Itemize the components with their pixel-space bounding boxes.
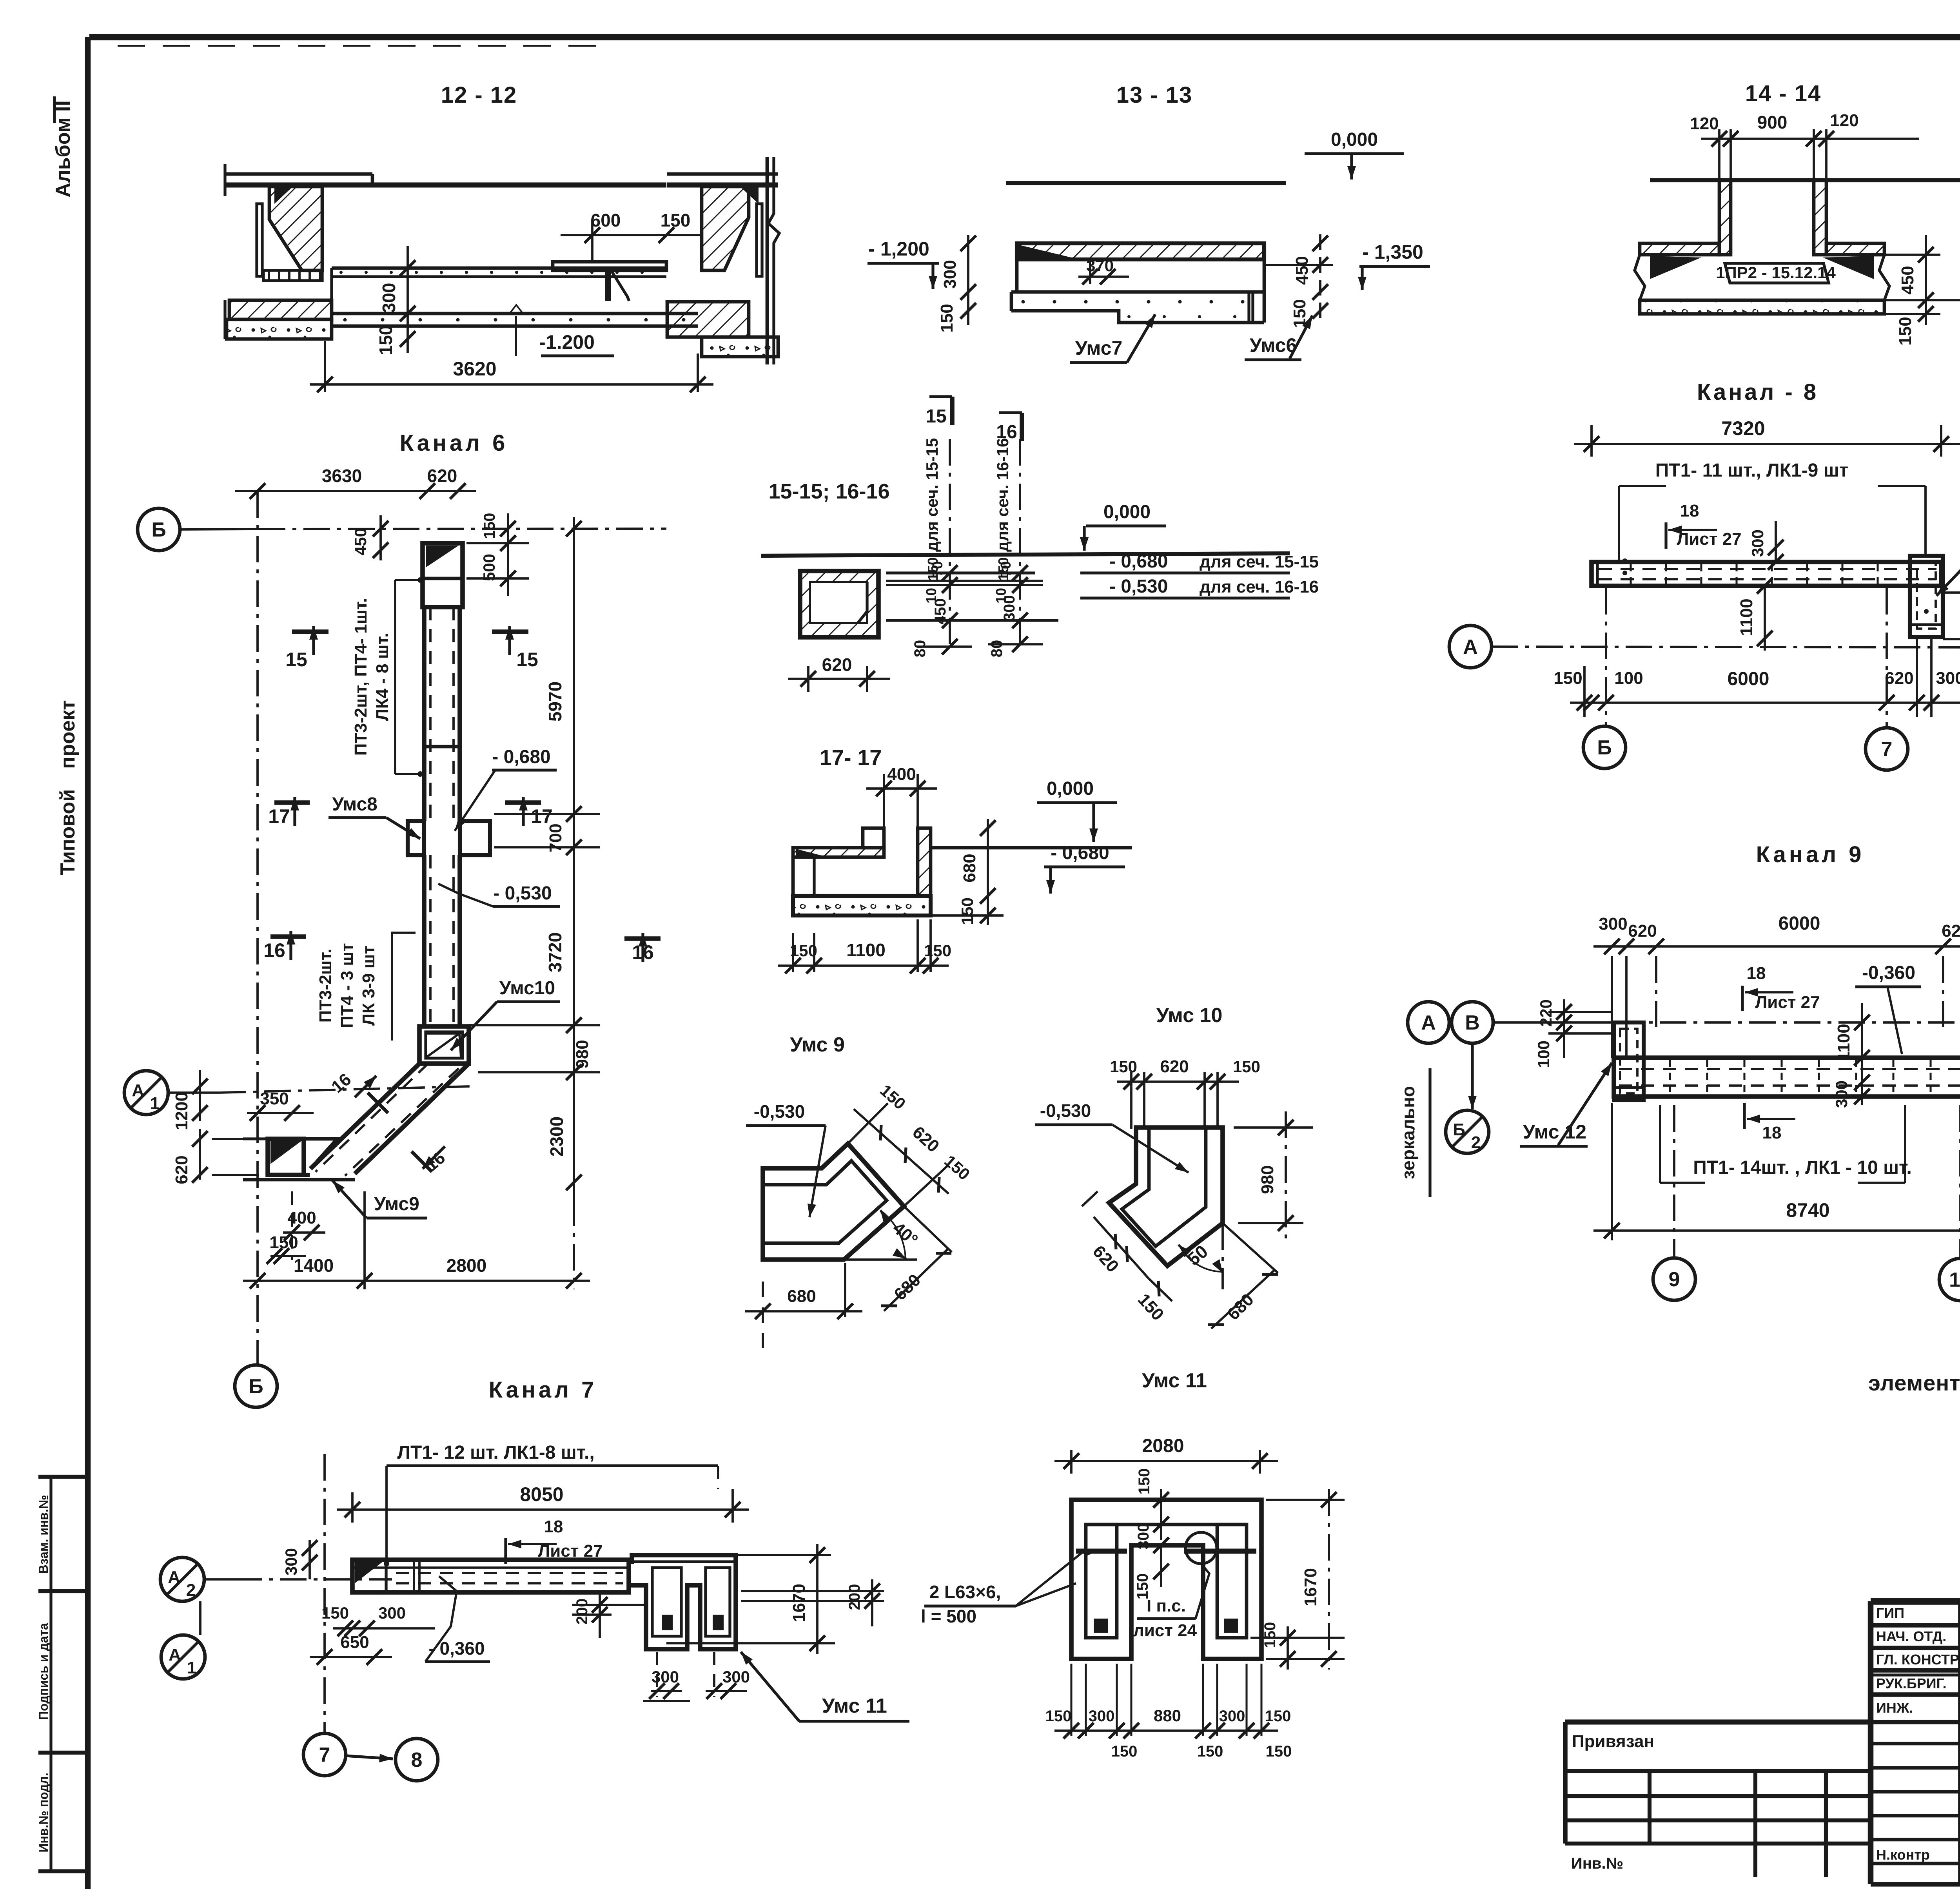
svg-text:Канал 6: Канал 6 — [400, 430, 508, 456]
svg-text:300: 300 — [652, 1668, 679, 1686]
svg-text:Б: Б — [1453, 1120, 1465, 1139]
svg-text:А: А — [132, 1081, 144, 1100]
svg-text:17- 17: 17- 17 — [820, 745, 882, 770]
svg-text:2300: 2300 — [546, 1117, 567, 1157]
svg-text:7: 7 — [319, 1744, 330, 1766]
svg-text:15-15; 16-16: 15-15; 16-16 — [768, 480, 889, 503]
svg-text:150: 150 — [376, 325, 396, 355]
svg-text:18: 18 — [1680, 501, 1699, 520]
svg-text:8: 8 — [411, 1749, 423, 1771]
channel 6 walls below T — [422, 855, 426, 1026]
svg-text:-0,530: -0,530 — [1040, 1100, 1091, 1121]
dimension 600 / 150 — [561, 234, 702, 236]
Ums11 dim 1670 right — [1328, 1489, 1330, 1670]
svg-text:ПТ1- 11 шт., ЛК1-9 шт: ПТ1- 11 шт., ЛК1-9 шт — [1655, 460, 1848, 481]
svg-text:70: 70 — [929, 561, 946, 577]
svg-text:2800: 2800 — [446, 1255, 486, 1276]
svg-text:300: 300 — [378, 1604, 406, 1622]
svg-text:900: 900 — [1757, 112, 1788, 132]
dim 300/150 left rotated — [967, 235, 969, 325]
slab top hatched band — [1017, 243, 1264, 259]
svg-text:ГИП: ГИП — [1876, 1605, 1904, 1621]
dimension 1400 / 2800 — [243, 1280, 590, 1282]
svg-text:9: 9 — [1669, 1268, 1680, 1291]
svg-text:17: 17 — [268, 805, 290, 827]
svg-text:15: 15 — [285, 649, 307, 671]
channel box — [800, 571, 878, 637]
svg-text:150: 150 — [1553, 669, 1582, 688]
svg-text:Умс10: Умс10 — [499, 978, 555, 999]
svg-text:150: 150 — [1111, 1743, 1138, 1760]
grid circles B and 7 — [1605, 588, 1607, 726]
svg-text:Привязан: Привязан — [1572, 1732, 1654, 1751]
section mark 16 right — [624, 936, 661, 941]
svg-text:I п.с.: I п.с. — [1147, 1596, 1186, 1615]
dimension 8050 — [351, 1492, 354, 1523]
ground line — [1006, 181, 1286, 185]
section 12-12 right lower hatched block — [667, 302, 749, 337]
svg-text:450: 450 — [1898, 266, 1917, 294]
svg-text:1ПР2 - 15.12.14: 1ПР2 - 15.12.14 — [1716, 263, 1836, 282]
dimension 1200 rotated — [199, 1070, 201, 1121]
svg-text:150: 150 — [1233, 1057, 1260, 1076]
svg-text:ПТ1- 14шт. , ЛК1 - 10 шт.: ПТ1- 14шт. , ЛК1 - 10 шт. — [1693, 1157, 1912, 1178]
svg-text:300: 300 — [1135, 1523, 1152, 1550]
Ums10 top dims 150 620 150 — [1117, 1080, 1239, 1083]
svg-text:150: 150 — [1110, 1057, 1137, 1076]
svg-text:1100: 1100 — [1834, 1024, 1853, 1061]
svg-text:Н.контр: Н.контр — [1876, 1847, 1930, 1863]
svg-text:- 1,350: - 1,350 — [1362, 241, 1423, 263]
svg-text:2: 2 — [186, 1581, 196, 1600]
Ums10 elbow inner contour — [1122, 1128, 1206, 1246]
svg-text:А: А — [1421, 1012, 1436, 1034]
svg-text:Умс 10: Умс 10 — [1156, 1004, 1223, 1027]
walls hatched — [1719, 180, 1731, 255]
section mark 15 right — [492, 629, 528, 634]
channel 9 bar — [1614, 1058, 1960, 1097]
dim 7320 — [1590, 425, 1593, 457]
svg-text:1200: 1200 — [172, 1092, 191, 1130]
svg-text:80: 80 — [988, 640, 1005, 658]
svg-text:для сеч. 15-15: для сеч. 15-15 — [1200, 552, 1319, 571]
svg-text:А: А — [169, 1645, 181, 1664]
Ums11 dim 150 right — [1287, 1626, 1289, 1670]
svg-text:для сеч. 16-16: для сеч. 16-16 — [1200, 577, 1319, 596]
svg-text:3620: 3620 — [453, 358, 496, 380]
Ums9 diagonal dims 150 620 150 — [854, 1109, 949, 1194]
channel 6 bend junction box Ums10 — [419, 1026, 469, 1064]
ground line right — [931, 846, 1132, 850]
svg-text:15: 15 — [926, 406, 946, 427]
channel 6 T junction Ums8 — [408, 821, 424, 855]
svg-text:10: 10 — [1949, 1269, 1960, 1291]
grid circles 9 and 10 — [1673, 1105, 1675, 1258]
svg-text:1400: 1400 — [294, 1255, 334, 1276]
svg-text:150: 150 — [924, 941, 951, 960]
dim 680 / 150 rotated — [987, 819, 989, 925]
svg-text:для сеч. 15-15: для сеч. 15-15 — [923, 438, 941, 552]
dim 1100 rotated — [1764, 586, 1766, 651]
svg-text:650: 650 — [340, 1633, 369, 1652]
svg-text:- 0,360: - 0,360 — [428, 1638, 485, 1659]
svg-text:620: 620 — [1885, 669, 1913, 688]
svg-text:Б: Б — [249, 1375, 263, 1398]
svg-text:300: 300 — [1748, 529, 1767, 557]
svg-text:лист 24: лист 24 — [1133, 1621, 1197, 1640]
left stamp blocks — [38, 1475, 88, 1479]
dims 220 100 left rotated — [1563, 999, 1565, 1058]
svg-text:150: 150 — [1197, 1743, 1223, 1760]
svg-text:600: 600 — [591, 210, 621, 230]
title block outer frame — [1871, 1598, 1960, 1604]
svg-text:300: 300 — [940, 260, 960, 288]
channel 7 right structure with feet — [629, 1555, 736, 1649]
svg-text:-1.200: -1.200 — [539, 331, 595, 353]
dim 450 / 150 right — [1925, 235, 1927, 325]
section 12-12 left foundation — [227, 319, 332, 339]
svg-text:100: 100 — [1614, 669, 1643, 688]
svg-text:1: 1 — [150, 1094, 160, 1113]
svg-text:680: 680 — [960, 854, 979, 882]
svg-text:ЛТ1- 12 шт. ЛК1-8 шт.,: ЛТ1- 12 шт. ЛК1-8 шт., — [397, 1442, 594, 1463]
sheet frame top border — [89, 34, 1960, 40]
svg-text:80: 80 — [911, 640, 929, 658]
svg-text:150: 150 — [937, 304, 956, 332]
Ums9 elbow outer contour — [763, 1144, 904, 1260]
svg-text:Умс 12: Умс 12 — [1523, 1121, 1586, 1143]
slab edge lines — [886, 571, 1035, 574]
section mark 17 right — [505, 800, 541, 805]
svg-text:-0,360: -0,360 — [1862, 963, 1915, 983]
grid axis B vertical dash-dot — [256, 491, 259, 1364]
section 12-12 cover plate 600 — [553, 262, 666, 270]
channel 9 left foot — [1614, 1022, 1644, 1100]
dimension 150 — [270, 1255, 306, 1257]
svg-text:Умс 11: Умс 11 — [822, 1695, 887, 1717]
svg-text:12 - 12: 12 - 12 — [441, 82, 517, 108]
svg-text:300: 300 — [282, 1548, 300, 1575]
bottom slab with step — [1011, 290, 1264, 294]
svg-text:-0,530: -0,530 — [754, 1101, 805, 1122]
section 12-12 right wall block — [667, 172, 778, 176]
axis circles A B and B/2 — [1408, 1002, 1449, 1043]
channel 6 diagonal branch — [310, 1064, 419, 1169]
svg-text:ПТ3-2шт, ПТ4- 1шт.: ПТ3-2шт, ПТ4- 1шт. — [351, 598, 370, 756]
bottom dimensions 300 300 of feet — [651, 1690, 682, 1692]
title block staff column lines — [1958, 1601, 1960, 1884]
svg-text:элементов каналов - лист: элементов каналов - лист 27 — [1868, 1370, 1960, 1395]
svg-text:300: 300 — [1001, 595, 1018, 622]
Ums11 outer shape — [1071, 1500, 1261, 1659]
Ums10 elbow outer contour — [1109, 1128, 1223, 1266]
dimensions 150 300 650 — [333, 1627, 435, 1630]
right dimension chain 5970/700/3720/980/2300 — [573, 517, 575, 1199]
grid circle B bottom — [235, 1365, 277, 1407]
svg-text:14 - 14: 14 - 14 — [1745, 81, 1822, 106]
Ums10 diag dim 680 — [1223, 1223, 1278, 1273]
Ums9 diagonal 680 — [884, 1248, 949, 1311]
beam mark 1PR2-15.12.14 — [1725, 263, 1829, 283]
dimension 200 rotated near feet — [599, 1591, 601, 1638]
svg-text:300: 300 — [1089, 1708, 1115, 1725]
privyazan sub-table — [1565, 1719, 1871, 1724]
svg-text:150: 150 — [790, 941, 817, 960]
svg-text:Лист 27: Лист 27 — [1677, 529, 1741, 549]
Ums9 angle 40deg — [844, 1258, 917, 1261]
dimension 450 — [379, 515, 382, 560]
Ums11 inner slots — [1086, 1525, 1117, 1638]
dim 450/150 right rotated — [1319, 234, 1321, 325]
channel 8 bar — [1592, 562, 1941, 586]
svg-text:ПТ4 - 3 шт: ПТ4 - 3 шт — [338, 943, 357, 1028]
Ums9 bottom 680 — [745, 1310, 862, 1312]
Ums11 rotated dims 150 300 150 — [1160, 1489, 1162, 1540]
diagonal section marks 16 on branch — [355, 1076, 376, 1097]
svg-text:2 L63×6,: 2 L63×6, — [929, 1582, 1001, 1602]
svg-text:1670: 1670 — [789, 1584, 809, 1622]
svg-text:Умс 11: Умс 11 — [1142, 1369, 1207, 1392]
dimension 200 / 1670 right — [871, 1579, 873, 1626]
svg-text:l = 500: l = 500 — [921, 1606, 976, 1626]
svg-text:150: 150 — [1136, 1468, 1153, 1495]
svg-text:13 - 13: 13 - 13 — [1116, 82, 1193, 108]
svg-text:220: 220 — [1537, 999, 1555, 1027]
svg-text:16: 16 — [632, 941, 654, 963]
grid circle B top — [138, 508, 180, 551]
svg-text:Умс7: Умс7 — [1075, 337, 1123, 359]
svg-text:500: 500 — [480, 554, 498, 581]
svg-text:150: 150 — [1134, 1574, 1151, 1600]
dimension 150 / 500 right of channel top — [507, 513, 509, 596]
svg-text:- 0,530: - 0,530 — [493, 883, 552, 904]
17-17 channel body — [793, 896, 931, 915]
svg-text:5970: 5970 — [545, 682, 565, 721]
svg-text:350: 350 — [260, 1089, 289, 1108]
svg-text:150: 150 — [1266, 1743, 1292, 1760]
svg-text:А: А — [168, 1568, 180, 1587]
dimension 3620 — [324, 341, 326, 392]
Ums11 detail circle p.s. — [1185, 1532, 1217, 1564]
bottom dims 150 1100 150 — [792, 933, 794, 972]
svg-text:0,000: 0,000 — [1331, 129, 1378, 150]
dims 120 900 120 — [1701, 138, 1919, 140]
svg-text:3720: 3720 — [545, 932, 565, 972]
dims 1100 300 rotated — [1861, 1003, 1863, 1105]
svg-text:680: 680 — [787, 1287, 816, 1306]
svg-text:16: 16 — [263, 939, 285, 961]
svg-text:300: 300 — [379, 283, 399, 313]
svg-text:620: 620 — [822, 654, 852, 675]
title block staff row lines — [1871, 1623, 1960, 1628]
svg-text:150: 150 — [661, 210, 691, 230]
svg-text:Инв.№ подл.: Инв.№ подл. — [36, 1773, 51, 1852]
svg-text:980: 980 — [573, 1040, 592, 1068]
svg-text:- 0,680: - 0,680 — [492, 747, 550, 767]
svg-text:ЛК 3-9 шт: ЛК 3-9 шт — [359, 946, 378, 1026]
Ums11 bottom dims — [1070, 1664, 1072, 1736]
Ums10 angle 50 — [1221, 1223, 1224, 1289]
svg-text:15: 15 — [516, 649, 538, 671]
svg-text:В: В — [1465, 1012, 1480, 1034]
dimension 300 left rotated — [309, 1540, 311, 1579]
svg-text:для сеч. 16-16: для сеч. 16-16 — [993, 438, 1012, 552]
svg-text:Типовой проект: Типовой проект — [56, 700, 79, 875]
svg-text:2: 2 — [1471, 1133, 1481, 1152]
channel 6 end box Ums9 — [268, 1139, 304, 1175]
dim 300 rotated — [1775, 521, 1777, 562]
svg-text:620: 620 — [1942, 921, 1960, 941]
svg-text:100: 100 — [1534, 1041, 1553, 1068]
axis 7 vertical dash-dot — [323, 1454, 326, 1734]
svg-text:450: 450 — [351, 528, 370, 555]
Ums11 dim 2080 — [1070, 1450, 1073, 1474]
svg-text:Канал - 8: Канал - 8 — [1697, 379, 1818, 405]
dimension 350 — [247, 1112, 314, 1114]
svg-text:980: 980 — [1258, 1165, 1277, 1194]
svg-text:18: 18 — [1747, 964, 1766, 983]
channel 6 dimension 3630 / 620 — [235, 490, 476, 492]
svg-text:Умс 9: Умс 9 — [790, 1033, 845, 1056]
section 12-12 right boundary with break — [766, 157, 769, 364]
svg-text:ИНЖ.: ИНЖ. — [1876, 1700, 1913, 1716]
svg-text:300: 300 — [722, 1668, 750, 1686]
svg-text:620: 620 — [1628, 921, 1657, 941]
svg-text:150: 150 — [1896, 317, 1915, 345]
svg-text:Умс9: Умс9 — [374, 1194, 419, 1215]
svg-text:880: 880 — [1154, 1706, 1181, 1725]
svg-text:ГЛ. КОНСТР.: ГЛ. КОНСТР. — [1876, 1651, 1960, 1668]
svg-text:150: 150 — [1045, 1708, 1072, 1725]
svg-text:300: 300 — [1219, 1708, 1245, 1725]
svg-text:8050: 8050 — [520, 1483, 563, 1505]
svg-text:7: 7 — [1881, 738, 1893, 761]
svg-text:6000: 6000 — [1728, 669, 1769, 689]
svg-text:Подпись и дата: Подпись и дата — [36, 1623, 51, 1720]
section 12-12 left wall block — [225, 172, 372, 176]
svg-text:7320: 7320 — [1721, 417, 1765, 439]
svg-text:150: 150 — [269, 1233, 298, 1252]
svg-text:Умс6: Умс6 — [1250, 334, 1297, 356]
svg-text:Инв.№: Инв.№ — [1571, 1855, 1623, 1872]
section 12-12 bottom slab — [332, 312, 698, 315]
sheet frame left border — [85, 37, 91, 1889]
svg-text:Взам. инв.№: Взам. инв.№ — [36, 1495, 51, 1574]
dimension 620 rotated — [199, 1129, 201, 1180]
grid circle A/1 left — [124, 1071, 168, 1115]
svg-text:- 0,680: - 0,680 — [1051, 843, 1109, 863]
svg-text:620: 620 — [172, 1155, 191, 1184]
axis circles A/2 and A/1 — [160, 1557, 204, 1601]
svg-text:620: 620 — [1160, 1057, 1189, 1076]
svg-text:450: 450 — [1292, 256, 1312, 285]
section mark 17 left — [274, 800, 310, 805]
vertical dimension 300 / 150 — [407, 246, 409, 353]
Ums10 dim 980 right — [1285, 1111, 1287, 1238]
svg-text:Б: Б — [1597, 736, 1612, 759]
svg-text:1100: 1100 — [846, 940, 886, 960]
svg-text:РУК.БРИГ.: РУК.БРИГ. — [1876, 1675, 1947, 1691]
svg-text:Б: Б — [151, 518, 166, 541]
svg-text:150: 150 — [1261, 1622, 1279, 1648]
svg-text:620: 620 — [427, 466, 457, 486]
ground line — [761, 553, 1290, 556]
svg-text:ПТ3-2шт.: ПТ3-2шт. — [316, 949, 335, 1023]
channel 8 right foot Ums12 — [1910, 556, 1943, 637]
dim 620 below box — [788, 678, 890, 680]
svg-text:1100: 1100 — [1737, 598, 1756, 636]
svg-text:0,000: 0,000 — [1047, 778, 1094, 799]
svg-text:18: 18 — [1762, 1123, 1782, 1142]
grid circles 7 and 8 — [303, 1733, 346, 1776]
Ums9 elbow inner contour — [763, 1161, 887, 1243]
section 12-12 right foundation — [702, 337, 778, 357]
svg-text:120: 120 — [1690, 114, 1719, 133]
ground line — [1650, 178, 1960, 182]
bottom slab — [1640, 300, 1884, 314]
bottom dims 150 100 6000 620 300 — [1570, 702, 1960, 704]
dim 8740 — [1611, 1103, 1613, 1240]
svg-text:300: 300 — [1936, 669, 1960, 688]
svg-text:8740: 8740 — [1786, 1199, 1829, 1221]
channel 7 bar — [352, 1560, 629, 1592]
svg-text:18: 18 — [544, 1517, 563, 1536]
svg-text:150: 150 — [1265, 1708, 1291, 1725]
svg-text:150: 150 — [958, 897, 976, 925]
cut marks 15 / 16 — [929, 395, 952, 398]
channel 6 top junction box — [423, 543, 463, 607]
svg-text:НАЧ. ОТД.: НАЧ. ОТД. — [1876, 1628, 1946, 1644]
Ums11 heavy dashed tie bars — [1076, 1548, 1127, 1554]
svg-text:6000: 6000 — [1779, 913, 1820, 934]
svg-text:- 1,200: - 1,200 — [868, 238, 929, 260]
svg-text:- 0,530: - 0,530 — [1109, 576, 1168, 597]
svg-text:450: 450 — [932, 598, 949, 625]
svg-text:Лист 27: Лист 27 — [1755, 993, 1820, 1012]
svg-text:150: 150 — [481, 513, 498, 539]
svg-text:А: А — [1463, 636, 1478, 658]
axis A circle and line — [1449, 625, 1492, 668]
svg-text:70: 70 — [998, 561, 1014, 577]
svg-text:1: 1 — [187, 1658, 196, 1677]
section cut dash lines with rotated labels — [949, 439, 951, 651]
section 12-12 channel floor slab — [332, 266, 666, 270]
Ums11 inner top line — [1086, 1523, 1247, 1526]
section mark 16 left — [270, 934, 306, 939]
dimension 400 — [283, 1231, 325, 1234]
svg-text:- 0,680: - 0,680 — [1109, 551, 1168, 572]
svg-text:120: 120 — [1830, 111, 1858, 130]
channel 6 vertical walls — [422, 607, 426, 821]
svg-text:150: 150 — [321, 1604, 349, 1622]
svg-text:200: 200 — [573, 1599, 591, 1625]
svg-text:Канал 7: Канал 7 — [489, 1377, 597, 1403]
svg-text:0,000: 0,000 — [1103, 502, 1151, 522]
section mark 15 left — [292, 629, 328, 634]
svg-text:1670: 1670 — [1301, 1568, 1320, 1606]
svg-text:300: 300 — [1832, 1080, 1851, 1108]
slab hatched band — [1640, 243, 1719, 255]
svg-text:200: 200 — [846, 1584, 863, 1610]
Ums10 lower-left dims 620 150 — [1094, 1217, 1149, 1278]
svg-text:3630: 3630 — [322, 466, 362, 486]
svg-text:ЛК4 - 8 шт.: ЛК4 - 8 шт. — [373, 633, 392, 721]
svg-text:2080: 2080 — [1142, 1436, 1184, 1456]
section 12-12 left bearing pad — [263, 270, 322, 281]
section 12-12 left lower slab — [229, 300, 332, 319]
top dims 300 620 6000 620 300 — [1593, 945, 1960, 948]
svg-text:300: 300 — [1599, 914, 1627, 934]
